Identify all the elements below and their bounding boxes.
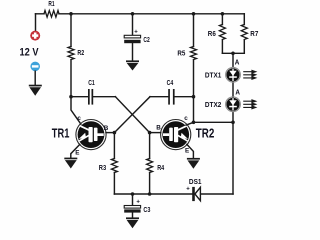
ground TR1 emitter bbox=[64, 158, 77, 169]
svg-text:E: E bbox=[185, 148, 189, 155]
node LED-TR2 collector bbox=[231, 121, 235, 125]
transistor TR2 bbox=[161, 120, 191, 150]
light arrows DTX1 bbox=[244, 70, 258, 80]
svg-text:C4: C4 bbox=[167, 80, 174, 87]
svg-text:DTX2: DTX2 bbox=[205, 100, 221, 109]
svg-text:C1: C1 bbox=[88, 80, 95, 87]
capacitor C1 bbox=[71, 96, 115, 98]
capacitor C4 bbox=[150, 96, 194, 98]
svg-text:R5: R5 bbox=[177, 51, 185, 58]
wire C2 to ground bbox=[132, 43, 134, 60]
node R5-C4 bbox=[192, 95, 196, 99]
node rail-R6 bbox=[221, 12, 225, 16]
svg-text:C2: C2 bbox=[143, 37, 149, 44]
svg-text:DTX1: DTX1 bbox=[205, 70, 221, 79]
resistor R7 bbox=[243, 14, 245, 54]
resistor R4 bbox=[149, 133, 151, 194]
node C3-rail bbox=[131, 192, 135, 196]
wire TR2 base lead bbox=[150, 132, 161, 134]
wire top rail bbox=[36, 13, 245, 15]
wire TR2 emitter lead bbox=[187, 144, 194, 158]
node rail-C2 bbox=[131, 12, 135, 16]
resistor R2 bbox=[68, 47, 74, 60]
svg-text:B: B bbox=[156, 125, 161, 132]
svg-text:E: E bbox=[75, 149, 79, 156]
svg-text:c: c bbox=[184, 115, 188, 122]
svg-text:R1: R1 bbox=[48, 1, 54, 8]
ground C2 bbox=[126, 60, 139, 70]
svg-text:B: B bbox=[104, 125, 109, 132]
transistor TR1 bbox=[76, 120, 106, 150]
node TR1 base bbox=[113, 131, 117, 135]
battery minus terminal bbox=[30, 62, 40, 72]
wire TR2 collector to LED column bbox=[194, 121, 234, 123]
diode DS1 bbox=[192, 187, 200, 201]
wire C2 branch bbox=[132, 14, 134, 35]
node TR2 base bbox=[148, 131, 152, 135]
light arrows DTX2 bbox=[244, 99, 258, 109]
wire TR1 emitter lead bbox=[71, 144, 80, 157]
wire left drop to battery plus bbox=[35, 14, 37, 31]
svg-text:R6: R6 bbox=[208, 31, 216, 38]
wire R5 branch bbox=[193, 14, 195, 123]
svg-text:TR2: TR2 bbox=[196, 127, 215, 141]
LED DTX2 bbox=[226, 97, 241, 112]
ground battery bbox=[29, 85, 42, 96]
node R6R7-LED bbox=[231, 52, 235, 56]
wire cross C1 to TR2 base bbox=[115, 97, 149, 133]
capacitor C2 bbox=[124, 35, 140, 43]
svg-text:c: c bbox=[77, 115, 81, 122]
resistor R3 bbox=[113, 133, 115, 194]
svg-text:TR1: TR1 bbox=[52, 127, 70, 141]
svg-text:R2: R2 bbox=[77, 50, 84, 57]
resistor R5 bbox=[191, 47, 197, 60]
ground TR2 emitter bbox=[187, 158, 200, 169]
svg-text:A: A bbox=[235, 90, 240, 97]
svg-text:+: + bbox=[136, 200, 140, 206]
svg-text:DS1: DS1 bbox=[189, 177, 202, 186]
wire TR1 base lead bbox=[106, 132, 114, 134]
ground C3 bbox=[126, 217, 139, 228]
wire cross C4 to TR1 base bbox=[114, 97, 150, 133]
LED DTX1 bbox=[226, 67, 241, 82]
wire R6-R7 join bbox=[222, 52, 244, 54]
node rail-R5 bbox=[192, 12, 196, 16]
capacitor C3 bbox=[132, 194, 134, 206]
wire C3 to ground bbox=[132, 213, 134, 218]
svg-text:C3: C3 bbox=[143, 207, 150, 214]
resistor R1 bbox=[44, 11, 59, 18]
wire R2 branch bbox=[70, 14, 72, 97]
resistor R6 bbox=[221, 14, 223, 54]
node R2-C1-TR1 collector bbox=[69, 95, 73, 99]
node TR2 collector bbox=[192, 121, 196, 125]
svg-text:+: + bbox=[134, 29, 138, 35]
wire LED column bbox=[232, 53, 234, 194]
wire TR2 collector lead bbox=[186, 122, 194, 125]
wire minus to ground bbox=[34, 71, 36, 85]
svg-text:R4: R4 bbox=[157, 165, 164, 172]
svg-text:R7: R7 bbox=[250, 31, 258, 38]
svg-text:12 V: 12 V bbox=[20, 47, 40, 59]
svg-text:R3: R3 bbox=[99, 165, 106, 172]
wire TR1 collector lead bbox=[71, 97, 81, 124]
node R4-rail bbox=[148, 192, 152, 196]
battery plus terminal bbox=[30, 31, 40, 41]
node rail-R2 bbox=[69, 12, 73, 16]
wire bottom rail bbox=[114, 193, 233, 195]
svg-text:+: + bbox=[186, 186, 190, 192]
svg-text:A: A bbox=[235, 59, 240, 66]
